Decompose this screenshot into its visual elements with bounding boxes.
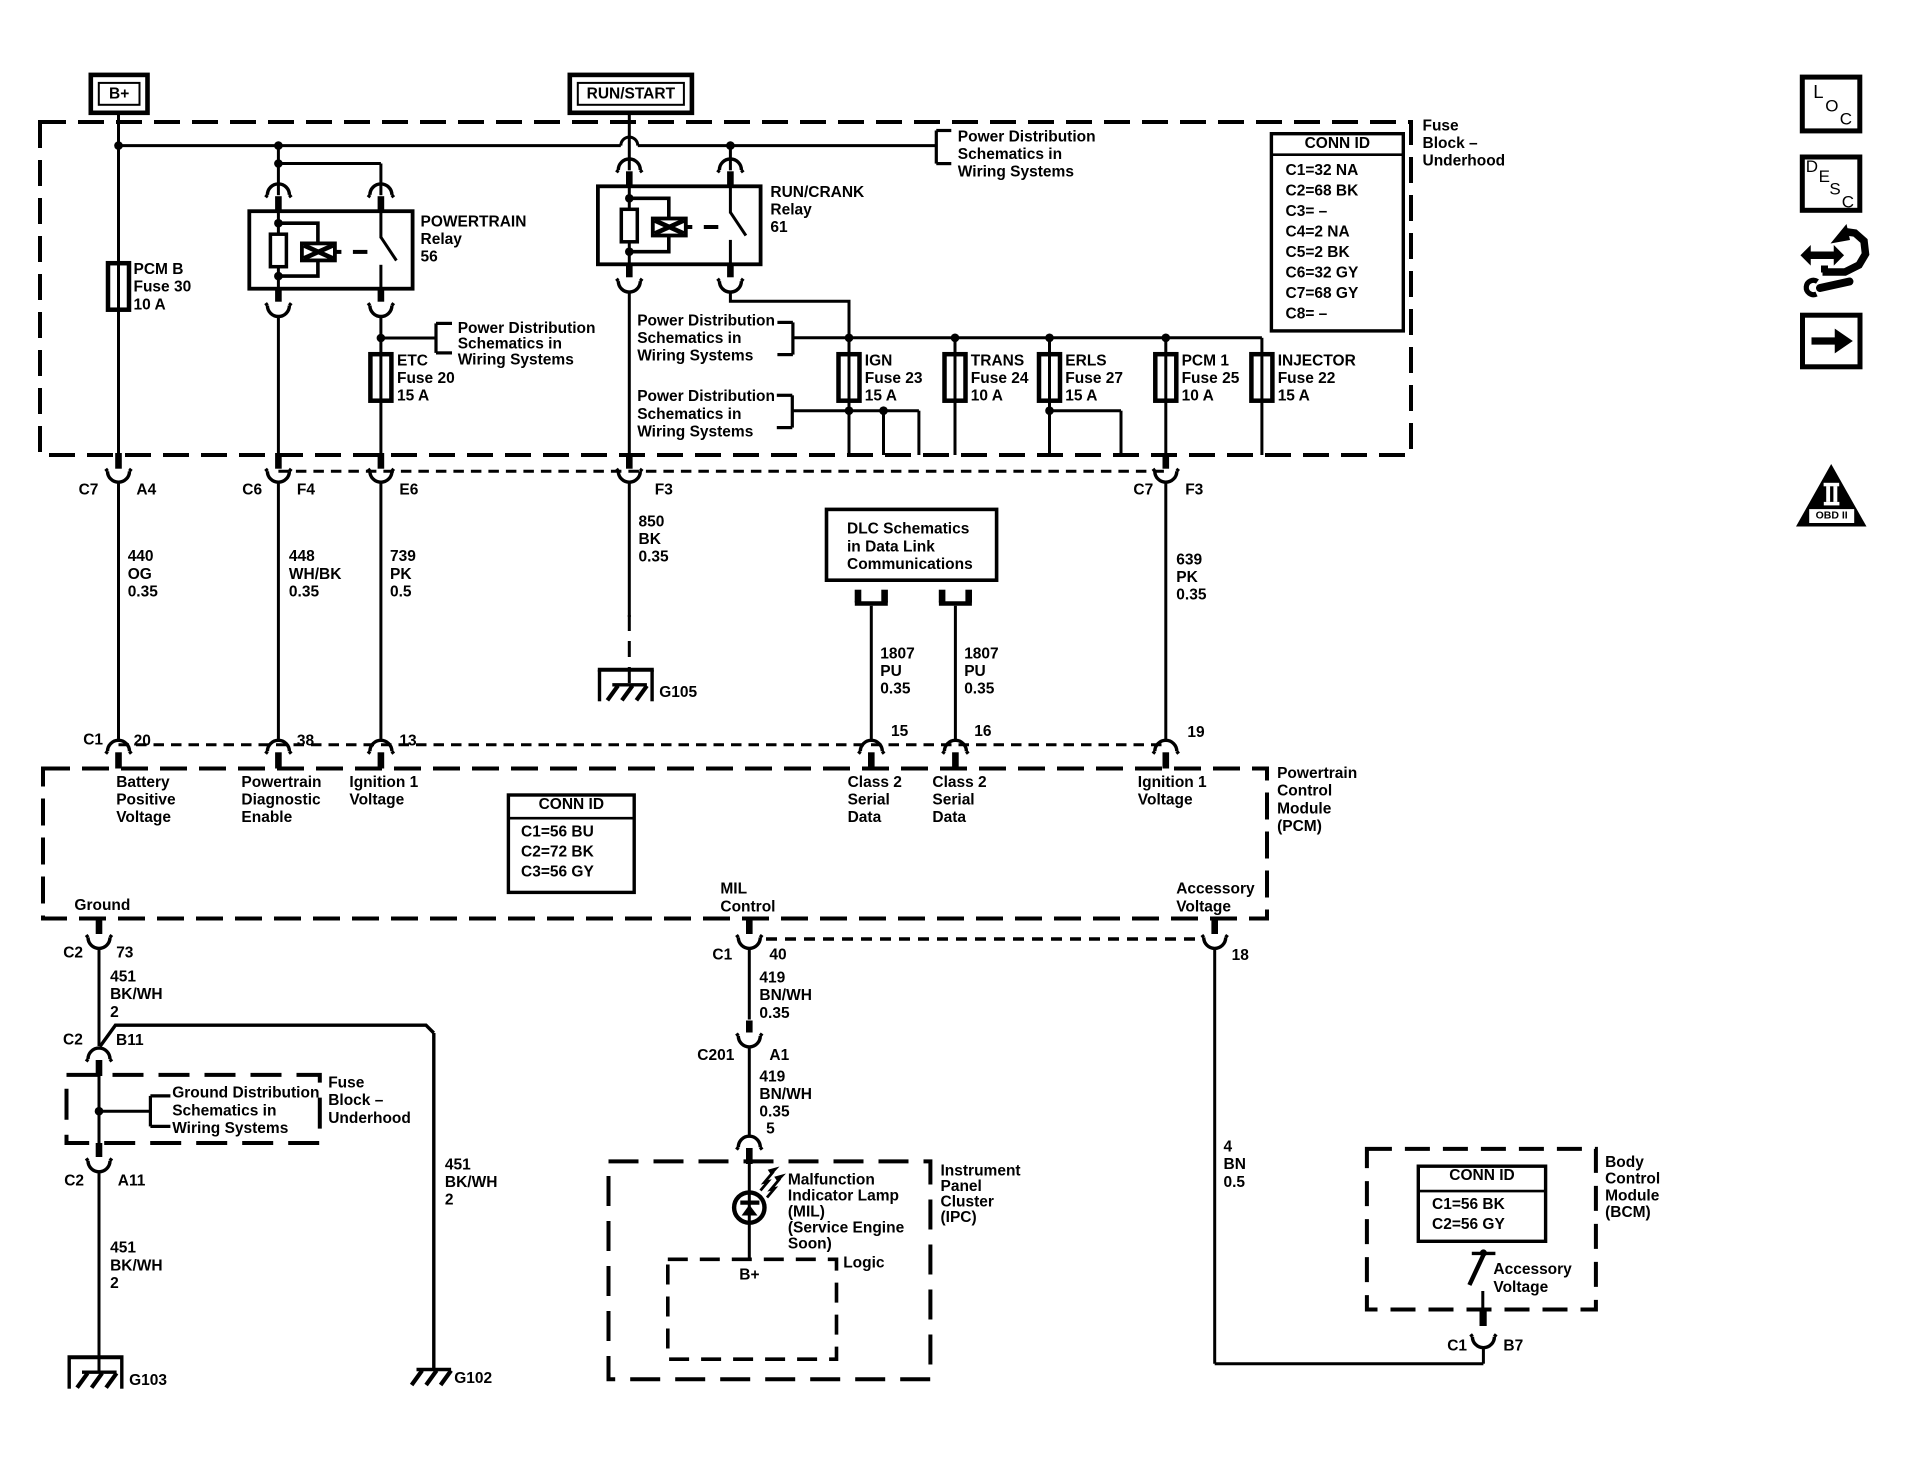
- svg-text:C2: C2: [63, 944, 83, 961]
- svg-text:RUN/START: RUN/START: [587, 85, 676, 102]
- svg-text:E: E: [1819, 167, 1830, 186]
- svg-text:G105: G105: [659, 684, 697, 701]
- svg-text:BatteryPositiveVoltage: BatteryPositiveVoltage: [116, 774, 176, 826]
- svg-text:C: C: [1840, 109, 1852, 128]
- svg-text:B11: B11: [116, 1032, 144, 1049]
- svg-text:A11: A11: [118, 1173, 146, 1190]
- svg-text:C1: C1: [1447, 1337, 1467, 1354]
- svg-text:G102: G102: [454, 1370, 492, 1387]
- svg-text:A1: A1: [769, 1047, 789, 1064]
- svg-text:G103: G103: [129, 1372, 167, 1389]
- svg-text:C201: C201: [697, 1047, 734, 1064]
- svg-text:38: 38: [297, 732, 315, 749]
- svg-text:C1=56 BUC2=72 BKC3=56 GY: C1=56 BUC2=72 BKC3=56 GY: [521, 824, 595, 881]
- svg-text:A4: A4: [136, 482, 156, 499]
- svg-text:D: D: [1806, 157, 1818, 176]
- svg-text:19: 19: [1187, 724, 1205, 741]
- svg-text:B+: B+: [739, 1266, 759, 1283]
- svg-text:C1: C1: [83, 731, 103, 748]
- svg-text:18: 18: [1232, 947, 1250, 964]
- svg-text:16: 16: [974, 723, 992, 740]
- svg-text:5: 5: [766, 1120, 775, 1137]
- svg-text:13: 13: [399, 732, 417, 749]
- svg-text:L: L: [1813, 81, 1823, 102]
- svg-text:C1: C1: [712, 947, 732, 964]
- svg-text:Ground: Ground: [74, 897, 130, 914]
- svg-text:F3: F3: [1185, 482, 1203, 499]
- svg-text:F3: F3: [655, 482, 673, 499]
- svg-text:C6: C6: [242, 482, 262, 499]
- svg-text:E6: E6: [399, 482, 418, 499]
- svg-text:C7: C7: [1133, 482, 1153, 499]
- svg-text:Logic: Logic: [843, 1255, 885, 1272]
- svg-text:73: 73: [116, 944, 134, 961]
- svg-text:20: 20: [134, 732, 151, 749]
- svg-text:O: O: [1825, 96, 1838, 115]
- svg-text:C2: C2: [63, 1032, 83, 1049]
- svg-text:CONN ID: CONN ID: [1305, 135, 1370, 152]
- svg-text:40: 40: [769, 947, 786, 964]
- svg-text:15: 15: [891, 723, 909, 740]
- svg-text:B7: B7: [1503, 1337, 1523, 1354]
- svg-text:CONN ID: CONN ID: [1449, 1167, 1514, 1184]
- svg-text:B+: B+: [109, 85, 129, 102]
- svg-text:C: C: [1842, 193, 1854, 212]
- svg-text:C7: C7: [79, 482, 99, 499]
- svg-text:F4: F4: [297, 482, 315, 499]
- svg-text:CONN ID: CONN ID: [539, 796, 604, 813]
- svg-text:C2: C2: [64, 1173, 84, 1190]
- svg-text:OBD II: OBD II: [1816, 510, 1848, 522]
- svg-text:S: S: [1829, 180, 1840, 199]
